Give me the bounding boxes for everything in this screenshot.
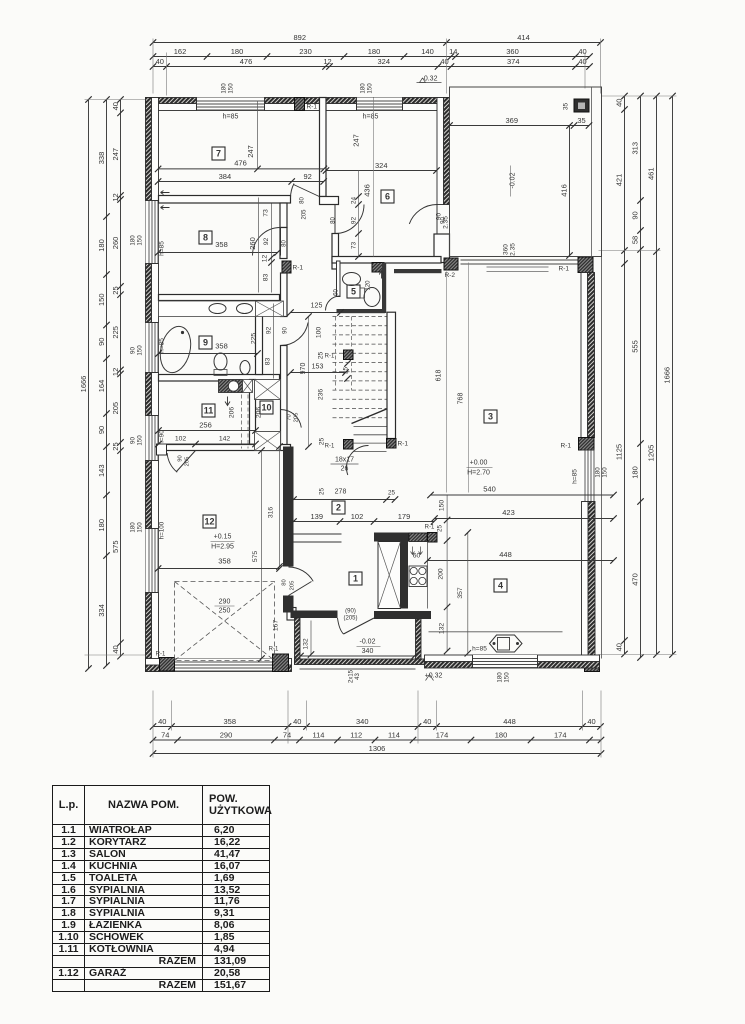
svg-text:179: 179 — [398, 512, 411, 521]
svg-text:112: 112 — [350, 731, 362, 740]
svg-text:470: 470 — [631, 573, 640, 586]
stair diagonal cut line — [352, 409, 387, 424]
svg-text:150: 150 — [367, 83, 374, 94]
svg-text:618: 618 — [436, 370, 443, 382]
room 5 label — [347, 285, 360, 298]
svg-text:290: 290 — [219, 599, 231, 606]
porch south wall hatch — [295, 659, 425, 665]
room 8 label — [199, 231, 212, 244]
exterior wall top — [146, 98, 450, 104]
garage SW pillar R-1 — [160, 658, 175, 672]
svg-text:206: 206 — [256, 407, 263, 419]
room5 vent arrow — [379, 271, 383, 279]
svg-text:35: 35 — [563, 103, 570, 111]
door bath9 leaf+arc — [281, 322, 309, 345]
dim 448 — [428, 560, 614, 562]
terrace dim 416 — [569, 126, 571, 256]
stair up-arrow curve — [346, 445, 368, 475]
stair pillar R-1 low-left — [344, 440, 354, 450]
svg-text:768: 768 — [458, 393, 465, 405]
window east living (h=85) — [582, 450, 595, 502]
dimension chain left inner — [120, 100, 122, 657]
porch west wall hatch — [295, 618, 301, 664]
dimension chain top line 1 (892 / 414) — [153, 42, 601, 44]
porch dim 132 — [310, 621, 312, 655]
svg-text:260: 260 — [111, 237, 120, 250]
stair solid treads lower flight — [354, 426, 387, 428]
lintel R-1 in top wall — [295, 98, 305, 111]
svg-text:180: 180 — [631, 466, 640, 479]
svg-text:236: 236 — [318, 389, 325, 401]
svg-text:139: 139 — [310, 512, 323, 521]
eaves line right — [601, 257, 603, 659]
svg-text:40: 40 — [615, 99, 624, 107]
wiatrolap/kitchen wall — [401, 542, 409, 609]
svg-text:(90): (90) — [345, 609, 356, 615]
svg-text:278: 278 — [335, 489, 347, 496]
svg-text:180: 180 — [360, 83, 367, 94]
svg-text:102: 102 — [351, 512, 364, 521]
svg-text:6: 6 — [385, 192, 390, 202]
jog room6 west — [320, 197, 339, 205]
svg-text:+0.32: +0.32 — [425, 673, 443, 680]
svg-text:174: 174 — [436, 731, 449, 740]
svg-text:540: 540 — [483, 485, 496, 494]
wall rooms 7/8 — [159, 196, 291, 204]
corridor dims 139/102/179 — [294, 521, 435, 523]
svg-text:40: 40 — [156, 57, 164, 66]
svg-text:h=85: h=85 — [223, 114, 239, 121]
svg-text:143: 143 — [97, 464, 106, 477]
pillar R-1 kitchen NW — [428, 533, 438, 543]
svg-text:180: 180 — [231, 47, 244, 56]
garage gate — [175, 659, 273, 672]
window W7 in top wall (180) — [197, 98, 265, 111]
svg-text:180: 180 — [221, 83, 228, 94]
svg-text:250: 250 — [219, 608, 231, 615]
svg-text:92: 92 — [304, 172, 312, 181]
svg-text:120: 120 — [366, 280, 372, 291]
extension lines left — [85, 99, 147, 101]
svg-text:90: 90 — [178, 455, 184, 461]
dimension chain left outer (1666) — [88, 100, 90, 669]
living room north: R-2 pillar — [444, 258, 458, 270]
svg-text:180: 180 — [130, 235, 137, 246]
svg-text:340: 340 — [356, 717, 369, 726]
room11 dims 256/102/142 — [159, 430, 256, 432]
garage SE pillar R-1 — [273, 654, 289, 672]
svg-text:150: 150 — [137, 235, 144, 246]
svg-text:-0.02: -0.02 — [360, 639, 376, 646]
svg-text:12: 12 — [111, 368, 120, 376]
svg-text:12: 12 — [323, 57, 331, 66]
svg-text:358: 358 — [215, 342, 228, 351]
svg-text:25: 25 — [319, 438, 326, 446]
door room7 leaf+arc — [294, 185, 323, 199]
svg-text:1205: 1205 — [647, 445, 656, 462]
small cabinet X room11 — [243, 380, 253, 393]
door room12 from 11 — [177, 451, 196, 472]
svg-text:358: 358 — [218, 557, 231, 566]
bath9 east wall — [256, 301, 263, 375]
room8 dims 358/260 — [158, 252, 277, 254]
terrace outline — [450, 87, 602, 257]
svg-text:90: 90 — [283, 327, 289, 334]
dim line room7 476 — [158, 168, 324, 170]
living east pillar R-1 low — [579, 438, 595, 451]
room 9 label — [199, 336, 212, 349]
pillar R-1 corridor — [282, 261, 291, 273]
svg-text:h=85: h=85 — [159, 241, 166, 256]
svg-text:40: 40 — [293, 717, 301, 726]
room6 dims 324/247/436 — [326, 170, 437, 172]
svg-text:92: 92 — [351, 217, 358, 225]
svg-text:225: 225 — [251, 333, 258, 345]
kitchen SE corner pillar — [585, 658, 600, 672]
terrace chimney block — [574, 99, 589, 112]
bathtub room 9 — [156, 323, 196, 376]
bidet room 9 — [240, 361, 250, 375]
extension lines right — [602, 95, 677, 97]
svg-text:60: 60 — [334, 289, 340, 296]
svg-text:140: 140 — [421, 47, 434, 56]
svg-text:180: 180 — [595, 467, 602, 478]
svg-text:74: 74 — [161, 731, 169, 740]
svg-text:-0.32: -0.32 — [422, 76, 438, 83]
kitchen south wall — [425, 662, 600, 669]
svg-text:25: 25 — [437, 525, 444, 533]
svg-text:R-1: R-1 — [156, 652, 166, 658]
svg-text:2.35: 2.35 — [510, 243, 517, 256]
svg-text:1666: 1666 — [663, 367, 672, 384]
svg-text:40: 40 — [578, 47, 586, 56]
svg-text:153: 153 — [312, 364, 324, 371]
svg-text:25: 25 — [388, 490, 396, 497]
svg-text:555: 555 — [631, 340, 640, 353]
corridor-wiatrolap opening lintel — [294, 533, 342, 535]
svg-text:1: 1 — [353, 574, 358, 584]
svg-text:230: 230 — [299, 47, 312, 56]
door room8 leaf+arc — [280, 228, 282, 256]
kitchen south window — [473, 655, 538, 668]
svg-text:150: 150 — [137, 345, 144, 356]
svg-text:100: 100 — [316, 327, 323, 339]
svg-text:R-1: R-1 — [307, 104, 318, 111]
room5 door leaf+arc — [326, 296, 341, 311]
window W9 left — [146, 323, 159, 373]
dim line room7 384/92 — [158, 181, 324, 183]
svg-text:167: 167 — [273, 620, 280, 632]
svg-text:150: 150 — [228, 83, 235, 94]
svg-text:H=2.70: H=2.70 — [467, 470, 490, 477]
svg-text:43: 43 — [355, 673, 361, 680]
svg-text:R-1: R-1 — [559, 266, 570, 273]
svg-text:150: 150 — [137, 435, 144, 446]
svg-text:102: 102 — [175, 436, 187, 443]
svg-text:+0.00: +0.00 — [470, 460, 488, 467]
svg-text:R-1: R-1 — [561, 443, 572, 450]
svg-text:125: 125 — [311, 303, 323, 310]
room 7 label — [212, 147, 225, 160]
stair pillar R-1 mid — [344, 350, 354, 360]
svg-text:357: 357 — [457, 587, 464, 599]
left wall pier at room11/12 — [157, 444, 167, 455]
svg-text:421: 421 — [615, 174, 624, 187]
svg-text:180: 180 — [368, 47, 381, 56]
dimension chain top line 2 — [153, 56, 590, 58]
toilet room 5 wc — [364, 288, 380, 307]
svg-text:384: 384 — [219, 172, 232, 181]
washing area X cabinet top — [256, 301, 284, 317]
room 4 label — [494, 579, 507, 592]
rooms 10/11 divider — [250, 380, 256, 445]
svg-text:205: 205 — [185, 457, 191, 467]
svg-text:892: 892 — [293, 33, 306, 42]
wiatrolap south wall east part (black) — [374, 611, 431, 619]
window W6 in top wall — [357, 98, 403, 111]
sinks room 9 — [209, 304, 226, 314]
svg-text:448: 448 — [503, 717, 516, 726]
svg-text:416: 416 — [560, 184, 569, 197]
svg-text:205: 205 — [294, 413, 300, 423]
room12 dims — [158, 568, 279, 570]
wall room6 west lower — [332, 234, 339, 270]
svg-text:14: 14 — [449, 47, 457, 56]
kitchen counter line — [429, 631, 563, 633]
svg-text:7: 7 — [216, 149, 221, 159]
svg-text:90: 90 — [97, 426, 106, 434]
wiatrolap north wall — [374, 533, 428, 542]
stub below wall 7/8 (73) — [280, 203, 287, 228]
room 11/12 wall — [159, 445, 291, 451]
room 10 label — [260, 401, 273, 414]
vent block wiatrolap — [409, 533, 427, 542]
toilet room 9 — [214, 353, 227, 370]
room6 south wall / corridor north — [332, 257, 441, 264]
svg-text:247: 247 — [246, 145, 255, 158]
door room10 leaf+arc — [281, 409, 302, 427]
door wiatrolap-garage leaf+arc — [289, 582, 312, 596]
porch east wall hatch — [416, 619, 422, 659]
svg-text:247: 247 — [111, 148, 120, 161]
svg-text:225: 225 — [111, 326, 120, 339]
living room north glazing (360/235) — [461, 259, 579, 261]
svg-text:360: 360 — [506, 47, 519, 56]
room6 east wall lower stub — [434, 234, 450, 263]
svg-text:142: 142 — [219, 436, 231, 443]
svg-text:448: 448 — [499, 550, 512, 559]
corridor low dims 278/25 — [294, 499, 396, 501]
svg-text:90: 90 — [97, 338, 106, 346]
svg-text:338: 338 — [97, 152, 106, 165]
stair dashed verticals — [335, 317, 337, 391]
svg-text:180: 180 — [495, 731, 508, 740]
dimension chain right C — [656, 96, 658, 655]
svg-text:205: 205 — [290, 581, 296, 591]
svg-text:25: 25 — [318, 352, 325, 360]
garage south wall — [146, 665, 292, 672]
svg-text:58: 58 — [631, 236, 640, 244]
dim 575 garage — [261, 451, 263, 659]
dimension chain left middle — [106, 100, 108, 666]
svg-text:132: 132 — [439, 623, 446, 635]
svg-text:3: 3 — [488, 412, 493, 422]
living room east wall — [588, 273, 595, 438]
svg-text:260: 260 — [248, 237, 257, 250]
svg-text:35: 35 — [577, 116, 585, 125]
svg-text:10: 10 — [261, 403, 271, 413]
svg-text:74: 74 — [283, 731, 291, 740]
closet X wiatrolap — [378, 542, 401, 609]
svg-text:2: 2 — [336, 503, 341, 513]
svg-text:90: 90 — [441, 217, 447, 224]
room 3 label — [484, 410, 497, 423]
extension lines bottom — [152, 691, 154, 758]
dim 540 — [431, 494, 614, 496]
svg-text:90: 90 — [631, 211, 640, 219]
dimension chain bottom line 2 — [153, 739, 601, 741]
svg-text:80: 80 — [331, 217, 337, 224]
stair east wall — [387, 312, 396, 438]
svg-text:374: 374 — [507, 57, 520, 66]
dimension chain right D (1666) — [672, 96, 674, 655]
svg-text:26: 26 — [341, 466, 349, 473]
svg-text:2x15: 2x15 — [349, 669, 355, 683]
corridor west wall low — [281, 346, 288, 447]
svg-text:476: 476 — [240, 57, 253, 66]
svg-text:92: 92 — [266, 327, 273, 335]
svg-text:206: 206 — [229, 407, 236, 419]
porch step line — [300, 668, 416, 670]
svg-text:8: 8 — [203, 233, 208, 243]
svg-text:83: 83 — [265, 358, 272, 366]
room 6 label — [381, 190, 394, 203]
svg-text:40: 40 — [578, 57, 586, 66]
bath9 vanity counter — [159, 301, 256, 317]
svg-text:414: 414 — [517, 33, 530, 42]
svg-text:114: 114 — [313, 731, 325, 740]
svg-text:180: 180 — [97, 519, 106, 532]
svg-text:60: 60 — [413, 553, 421, 560]
svg-text:1125: 1125 — [615, 444, 624, 460]
svg-text:1306: 1306 — [369, 744, 386, 753]
svg-text:25: 25 — [111, 286, 120, 294]
svg-text:R-1: R-1 — [398, 441, 409, 448]
svg-text:R-1: R-1 — [325, 354, 335, 360]
svg-text:h=85: h=85 — [472, 646, 487, 653]
svg-text:180: 180 — [497, 672, 504, 683]
terrace step line — [487, 271, 549, 273]
svg-text:80: 80 — [300, 197, 306, 204]
wiatrolap south wall west part (black) — [291, 611, 338, 619]
svg-text:316: 316 — [268, 507, 275, 519]
svg-text:40: 40 — [111, 645, 120, 653]
arrow below washer — [225, 397, 230, 406]
svg-text:313: 313 — [631, 142, 640, 155]
garage east wall piece — [287, 608, 296, 621]
kitchen sink — [490, 635, 523, 652]
svg-text:324: 324 — [377, 57, 390, 66]
svg-text:40: 40 — [111, 102, 120, 110]
svg-text:12: 12 — [204, 517, 214, 527]
svg-text:25: 25 — [111, 442, 120, 450]
svg-text:162: 162 — [174, 47, 187, 56]
svg-text:369: 369 — [505, 116, 518, 125]
svg-text:h=85: h=85 — [363, 114, 379, 121]
dimension chain right A — [624, 96, 626, 654]
svg-text:11: 11 — [204, 406, 214, 416]
dimension chain top line 3 — [153, 66, 590, 68]
svg-text:358: 358 — [215, 240, 228, 249]
room5 south wall — [337, 309, 386, 313]
svg-text:12: 12 — [111, 193, 120, 201]
toilet room 5 sink — [343, 273, 361, 286]
svg-text:73: 73 — [351, 242, 358, 250]
svg-text:205: 205 — [111, 402, 120, 415]
dim line room7 247 vertical — [257, 101, 259, 169]
left wall arrows — [161, 191, 170, 195]
terrace door gap leaf room6 — [436, 205, 438, 235]
room 2 label — [332, 501, 345, 514]
svg-text:360: 360 — [503, 244, 510, 255]
svg-text:324: 324 — [375, 161, 388, 170]
svg-text:h=85: h=85 — [159, 338, 166, 353]
svg-text:200: 200 — [438, 568, 445, 580]
kitchen east wall — [588, 502, 595, 659]
entry door leaf — [344, 618, 375, 634]
room area table — [52, 785, 270, 992]
kitchen counter west — [427, 542, 429, 609]
svg-text:575: 575 — [252, 551, 259, 563]
room 11 label — [202, 404, 215, 417]
svg-text:h=85: h=85 — [572, 469, 579, 484]
svg-text:R-1: R-1 — [269, 647, 279, 653]
room 12 label — [203, 515, 216, 528]
svg-text:290: 290 — [220, 731, 233, 740]
room 1 label — [349, 572, 362, 585]
door room6 leaf — [334, 205, 336, 234]
svg-text:18x17: 18x17 — [335, 457, 354, 464]
bath9 south wall — [159, 375, 280, 382]
flue dashed lines — [241, 395, 243, 449]
svg-text:83: 83 — [263, 274, 270, 282]
svg-text:70: 70 — [287, 414, 293, 420]
stairwell top wall — [394, 269, 442, 273]
svg-text:150: 150 — [504, 672, 511, 683]
svg-text:164: 164 — [97, 380, 106, 393]
svg-text:4: 4 — [498, 581, 503, 591]
svg-text:R-1: R-1 — [425, 525, 435, 531]
X cabinet room10 top — [255, 380, 281, 400]
svg-text:9: 9 — [203, 338, 208, 348]
svg-text:476: 476 — [234, 159, 247, 168]
svg-text:1666: 1666 — [79, 376, 88, 393]
svg-text:334: 334 — [97, 604, 106, 617]
corridor west wall mid — [281, 273, 288, 317]
svg-text:(205): (205) — [343, 616, 357, 622]
svg-text:80: 80 — [282, 240, 288, 247]
room8 south wall — [159, 295, 280, 301]
living room NE pillar R-1 — [578, 257, 593, 273]
corridor/garage wall (black) — [283, 447, 294, 567]
garage parking dashed box — [175, 582, 275, 661]
stair pillar R-1 low-right — [387, 439, 397, 449]
kitchen stove — [409, 566, 427, 587]
extension lines top — [152, 39, 154, 94]
svg-text:R-1: R-1 — [325, 444, 335, 450]
window W11 left — [146, 416, 159, 461]
svg-text:180: 180 — [130, 522, 137, 533]
